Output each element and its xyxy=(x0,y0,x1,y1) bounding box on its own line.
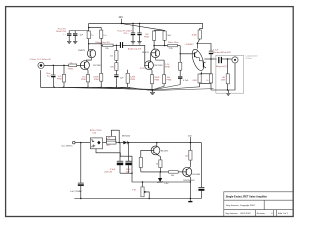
bridge rectifier B1 xyxy=(90,138,102,149)
svg-text:BZX55C5V6: BZX55C5V6 xyxy=(183,180,195,182)
svg-text:2SC1845: 2SC1845 xyxy=(93,65,102,67)
wire Q6 emitter xyxy=(189,175,191,201)
wire J2 source to R13 xyxy=(151,69,152,75)
label C4 C5 value xyxy=(117,31,132,36)
capacitor C9 bypass xyxy=(209,51,213,59)
svg-text:PRM: PRM xyxy=(94,79,99,81)
label U1 type xyxy=(185,44,194,46)
title block frame xyxy=(224,192,293,217)
label R6 value xyxy=(93,76,98,81)
label R15 value xyxy=(167,77,172,82)
junction AC return xyxy=(80,142,81,143)
wire R16 to output device xyxy=(197,39,199,49)
svg-text:2SA970: 2SA970 xyxy=(142,51,150,54)
svg-text:8 Ohm: 8 Ohm xyxy=(246,58,253,60)
wire signal ground bus xyxy=(41,70,130,87)
wire R10 bottom xyxy=(164,40,166,45)
svg-text:25V +: 25V + xyxy=(124,33,130,35)
svg-text:~1Vrms TO 1.4Vrms IN: ~1Vrms TO 1.4Vrms IN xyxy=(29,58,51,61)
junction R7 node xyxy=(116,45,117,46)
label AC input xyxy=(61,146,73,148)
capacitor C6 xyxy=(114,70,118,87)
ground PSU bar xyxy=(188,201,192,202)
connector X2 output xyxy=(232,57,238,63)
capacitor C5 100uF xyxy=(137,23,141,41)
junction loop xyxy=(119,142,120,143)
resistor R18 load xyxy=(226,59,229,90)
label R11 value xyxy=(169,48,174,50)
label R12 value xyxy=(130,77,135,82)
junction 24V rail xyxy=(121,23,123,25)
junction bus c xyxy=(87,87,88,88)
svg-text:PRM: PRM xyxy=(154,80,159,82)
label C10 note xyxy=(216,65,227,68)
wire series pair links xyxy=(106,138,115,143)
junction input C1 xyxy=(53,65,54,66)
speaker enclosure box xyxy=(216,55,244,93)
transistor Q4 xyxy=(151,49,160,58)
junction output to zobel xyxy=(227,58,228,59)
wire J1 drain up xyxy=(86,58,91,61)
wire star fan right xyxy=(153,85,214,91)
wire star fan left xyxy=(54,87,152,90)
capacitor C7 film coupling xyxy=(120,42,145,48)
wire X2 return xyxy=(211,63,235,90)
resistor R21 series upper xyxy=(106,136,115,139)
label zener type xyxy=(183,180,195,182)
svg-text:PRM: PRM xyxy=(167,80,172,82)
svg-text:Mundorf MCap 63V: Mundorf MCap 63V xyxy=(213,51,232,54)
svg-text:PRM: PRM xyxy=(130,79,135,81)
transistor Q5 BD139 xyxy=(151,146,160,155)
label D1 type xyxy=(122,136,131,138)
junction base net xyxy=(160,171,161,172)
wire AC feed xyxy=(75,142,90,144)
label R26 value xyxy=(185,155,189,157)
junction bus e xyxy=(116,87,117,88)
wire J2 drain to Q4 base xyxy=(150,53,153,62)
resistor R26 xyxy=(189,143,192,161)
svg-text:BC546B: BC546B xyxy=(193,174,201,176)
label R13 value xyxy=(154,77,159,82)
resistor R25 10k horizontal xyxy=(169,171,183,174)
junction bus b xyxy=(63,87,64,88)
diode D2 zener xyxy=(158,172,163,183)
label R8a value xyxy=(110,56,114,58)
wire caps top bus xyxy=(69,30,89,32)
capacitor C14 output xyxy=(198,143,204,199)
label R22 value xyxy=(107,145,112,147)
junction R11 left xyxy=(164,45,165,46)
svg-text:5,6V: 5,6V xyxy=(164,183,169,185)
resistor R7 22k horizontal xyxy=(103,44,120,47)
resistor R12 120R xyxy=(126,70,129,88)
svg-text:10W: 10W xyxy=(221,79,225,81)
resistor R19 emitter a xyxy=(198,72,211,83)
connector X3 AC input xyxy=(73,141,76,144)
svg-text:Magnetic(?): Magnetic(?) xyxy=(216,65,227,68)
drawing frame xyxy=(6,7,294,217)
label Q2 type2 xyxy=(93,65,102,67)
wire AC return drop xyxy=(80,143,82,183)
wire Q5 collector xyxy=(156,143,158,147)
junction emitter top xyxy=(201,73,202,74)
transistor J1 JFET xyxy=(80,61,89,70)
wire base net xyxy=(141,171,169,173)
label C6 value xyxy=(120,78,124,80)
wire input signal xyxy=(44,64,69,66)
output device U1 oval xyxy=(190,48,206,72)
resistor R15 10k xyxy=(156,58,166,87)
junction rail C11 xyxy=(80,198,81,199)
junction trimmer top xyxy=(142,181,143,182)
svg-text:1uF 275VAC: 1uF 275VAC xyxy=(70,190,82,193)
resistor R2 47k xyxy=(62,65,65,87)
label R4 value xyxy=(103,35,107,37)
label R2 value xyxy=(57,76,63,81)
label R14 value xyxy=(165,64,170,69)
label input level xyxy=(29,58,51,61)
label R11 brand xyxy=(168,42,179,44)
ground below C4 xyxy=(131,42,135,44)
junction output top xyxy=(197,43,198,44)
svg-text:Riken Ohm 2k2: Riken Ohm 2k2 xyxy=(96,42,111,44)
label R25 value xyxy=(171,175,175,177)
resistor R1 1k series xyxy=(69,64,81,67)
wire top to C9 xyxy=(197,44,211,51)
capacitor C12 xyxy=(117,143,123,174)
label R10 value xyxy=(167,35,171,37)
label C14 plus xyxy=(196,190,198,192)
svg-text:BD139L: BD139L xyxy=(161,150,169,152)
label C8 value xyxy=(183,80,189,82)
junction R26 rail xyxy=(190,142,191,143)
label R19 R20 xyxy=(193,80,199,82)
label R9 value xyxy=(144,34,149,39)
label B1 type xyxy=(90,130,102,134)
resistor R8a xyxy=(115,45,118,60)
wire B1 output xyxy=(103,142,107,144)
label D2 type xyxy=(164,183,169,185)
trimmer P1 xyxy=(141,182,149,199)
junction return xyxy=(227,89,228,90)
ground speaker xyxy=(226,90,230,96)
resistor R3 xyxy=(87,31,90,39)
svg-text:MUR420: MUR420 xyxy=(122,136,131,138)
svg-text:Revision:: Revision: xyxy=(257,213,266,215)
transistor Q6 BC546 xyxy=(182,167,192,176)
wire diagonal from 24V to R9/R10 xyxy=(122,24,165,31)
capacitor C2 100uF xyxy=(67,31,71,42)
junction return join xyxy=(131,173,132,174)
wire 24V PSU stub xyxy=(189,137,191,143)
wire Q6 collector xyxy=(189,160,191,168)
wire 24V stub xyxy=(121,19,123,24)
svg-text:Side 1 of 1: Side 1 of 1 xyxy=(278,213,289,215)
junction output C9 xyxy=(210,58,211,59)
label loudspeaker xyxy=(246,55,258,61)
label P1 xyxy=(132,190,137,192)
svg-text:Vac 18VDC: Vac 18VDC xyxy=(61,146,73,148)
diode D1 xyxy=(116,141,201,145)
capacitor C4 100uF xyxy=(131,23,135,41)
resistor R11 2.2k horizontal xyxy=(165,44,181,47)
label J2 ref xyxy=(140,68,146,70)
svg-text:Jörg Janssen, Copyright 2007: Jörg Janssen, Copyright 2007 xyxy=(226,204,256,207)
resistor R4 xyxy=(100,30,103,38)
ground below C3 xyxy=(73,41,77,43)
label Q2 type xyxy=(78,49,86,52)
label J2 type xyxy=(154,65,163,67)
resistor R17 bleeder xyxy=(209,59,212,90)
capacitor C8 xyxy=(178,70,182,84)
junction zener top xyxy=(160,171,161,172)
label C10 value xyxy=(213,49,232,54)
transistor Q2 xyxy=(87,49,95,57)
ground below C5 xyxy=(137,42,141,44)
label R5 value xyxy=(81,76,86,81)
resistor R10 xyxy=(163,30,166,40)
wire regulator reference line xyxy=(132,180,190,183)
label R17 value xyxy=(206,80,209,82)
svg-text:Jörg Janssen 08.11.2007: Jörg Janssen 08.11.2007 xyxy=(225,212,251,215)
ground star xyxy=(150,90,155,95)
capacitor C1 input xyxy=(51,65,55,87)
junction star ground xyxy=(152,89,154,91)
resistor R16 100R top xyxy=(198,23,203,39)
resistor R14 1.2k xyxy=(179,54,182,70)
junction bus d xyxy=(101,87,102,88)
label R24 value xyxy=(156,164,159,166)
junction C5 rail xyxy=(139,23,140,24)
label C12 value xyxy=(104,169,115,174)
wire output line xyxy=(204,58,216,60)
svg-text:Single-Ended JFET Valve Amplif: Single-Ended JFET Valve Amplifier xyxy=(226,195,267,198)
junction feedback node xyxy=(180,53,181,54)
node 24V PSU output label xyxy=(188,135,192,137)
svg-text:PRM: PRM xyxy=(57,78,62,80)
label 1uF black xyxy=(80,35,84,37)
label Q4 type xyxy=(142,51,150,54)
resistor R5 source xyxy=(86,75,89,88)
capacitor C10 4.7uF output xyxy=(218,57,232,63)
wire bypass loop xyxy=(111,130,119,142)
label Q6 type xyxy=(193,174,201,176)
resistor R6 xyxy=(100,73,103,87)
svg-text:PRM: PRM xyxy=(165,66,170,68)
label C13 value xyxy=(126,169,131,174)
connector X1 input jack xyxy=(38,62,44,68)
svg-text:PRM: PRM xyxy=(81,79,86,81)
svg-text:2SC1845: 2SC1845 xyxy=(154,65,163,67)
wire R11 to driver base xyxy=(180,46,193,54)
wire bridge return xyxy=(96,149,132,182)
junction emitter rail crossing xyxy=(190,198,191,199)
label R16 value xyxy=(192,35,197,37)
svg-text:Riken Ohm: Riken Ohm xyxy=(168,42,179,44)
svg-text:PRM: PRM xyxy=(144,36,149,38)
label R7 value xyxy=(105,48,109,50)
ground below C2 xyxy=(67,41,71,43)
wire Q2 base feed xyxy=(88,39,90,51)
wire rail left drop xyxy=(88,23,90,31)
wire to R7 22k xyxy=(101,44,102,46)
svg-text:100R: 100R xyxy=(192,35,197,37)
svg-text:4.7uF: 4.7uF xyxy=(183,80,189,82)
capacitor C13 xyxy=(125,143,131,174)
svg-text:24V: 24V xyxy=(119,16,124,19)
label R8b value xyxy=(110,67,114,69)
label C9 plus xyxy=(213,57,215,59)
resistor R23 xyxy=(139,157,142,172)
svg-text:(330 uF): (330 uF) xyxy=(104,171,112,173)
resistor R13 560R xyxy=(150,75,153,90)
wire Q5 emitter xyxy=(157,154,161,160)
resistor R24 1k xyxy=(159,160,162,172)
label Q5 type xyxy=(161,150,169,152)
junction input R2 xyxy=(63,65,64,66)
junction C4 rail xyxy=(132,23,133,24)
label C11 value xyxy=(70,190,82,193)
resistor R9 xyxy=(153,30,156,40)
label R21 marks xyxy=(108,137,111,139)
label C2 C3 value xyxy=(56,29,67,36)
junction Q5 collector rail xyxy=(156,142,157,143)
svg-text:Loudspeaker: Loudspeaker xyxy=(246,55,258,58)
label R7 brand xyxy=(96,42,111,44)
label C7 value xyxy=(128,47,142,50)
wire mid column xyxy=(100,38,102,73)
svg-text:LD1084C: LD1084C xyxy=(185,44,194,46)
junction mid column a xyxy=(101,43,102,44)
wire PSU 0V rail xyxy=(74,198,201,200)
junction C13 rail xyxy=(128,142,129,143)
wire C7 to J2 gate xyxy=(144,45,146,65)
label R1 value xyxy=(68,63,73,71)
wire R9 bottom to Q4 xyxy=(153,40,155,50)
label R18 value xyxy=(221,77,226,82)
wire Q5 base xyxy=(141,150,151,157)
junction rail wiper xyxy=(149,198,150,199)
junction bus a xyxy=(54,87,55,88)
svg-text:AudioCap 1uF: AudioCap 1uF xyxy=(128,47,142,50)
junction rail-cap node xyxy=(88,27,89,28)
resistor R22 series lower xyxy=(106,141,116,144)
label R3 value xyxy=(91,35,94,37)
svg-text:PRM: PRM xyxy=(68,69,73,71)
transistor J2 JFET xyxy=(145,61,154,70)
wire caps bottom join xyxy=(120,172,132,174)
svg-text:2SA970: 2SA970 xyxy=(78,49,86,52)
wire J1 source down xyxy=(87,69,88,75)
wire branch to R4 xyxy=(89,28,102,31)
node 24V supply rail label xyxy=(119,16,124,19)
wire R9 top link xyxy=(154,29,165,31)
title text xyxy=(225,195,288,215)
wire top supply rail xyxy=(89,22,203,24)
capacitor C11 line xyxy=(78,183,84,198)
capacitor C3 100uF xyxy=(73,31,77,42)
label C1 value xyxy=(46,73,51,78)
resistor R20 emitter b xyxy=(200,83,211,87)
resistor R8b xyxy=(115,60,118,70)
